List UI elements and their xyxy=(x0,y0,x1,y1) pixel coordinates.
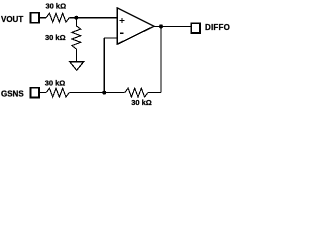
resistor R2 30 kOhm (vertical) xyxy=(72,26,81,49)
terminal VOUT xyxy=(30,13,39,23)
wire R3 to node B xyxy=(69,92,104,94)
svg-text:30 kΩ: 30 kΩ xyxy=(45,33,66,42)
wire minus input xyxy=(104,37,117,39)
wire node B to R4 xyxy=(104,92,124,94)
wire junction A down to R2 xyxy=(75,18,77,26)
svg-text:30 kΩ: 30 kΩ xyxy=(45,2,66,11)
wire GSNS terminal to R3 xyxy=(40,92,47,94)
wire R2 to ground xyxy=(75,49,77,62)
node output junction xyxy=(159,24,163,28)
terminal DIFFOUT xyxy=(191,23,200,33)
resistor R4 30 kOhm xyxy=(125,88,148,97)
svg-text:30 kΩ: 30 kΩ xyxy=(131,98,152,107)
svg-text:GSNS: GSNS xyxy=(1,90,24,99)
ground xyxy=(70,62,84,71)
svg-text:VOUT: VOUT xyxy=(1,15,23,24)
op-amp U1 xyxy=(117,8,154,44)
terminal GSNS xyxy=(30,88,39,98)
wire output junction down to R4 xyxy=(160,26,162,92)
op-amp plus sign xyxy=(120,18,125,23)
wire minus input down to node B xyxy=(103,38,105,93)
wire op-amp output to terminal DIFFOUT xyxy=(154,25,191,27)
wire R1 to op-amp plus input xyxy=(69,17,117,19)
wire R4 to output vertical xyxy=(148,92,161,94)
node junction A xyxy=(74,16,78,20)
op-amp minus sign xyxy=(120,32,124,34)
resistor R3 30 kOhm xyxy=(46,88,69,97)
svg-text:30 kΩ: 30 kΩ xyxy=(45,78,66,87)
wire VOUT terminal to R1 xyxy=(40,17,47,19)
resistor R1 30 kOhm xyxy=(46,13,69,22)
node junction B xyxy=(102,91,106,95)
svg-text:DIFFOUT: DIFFOUT xyxy=(205,23,230,32)
